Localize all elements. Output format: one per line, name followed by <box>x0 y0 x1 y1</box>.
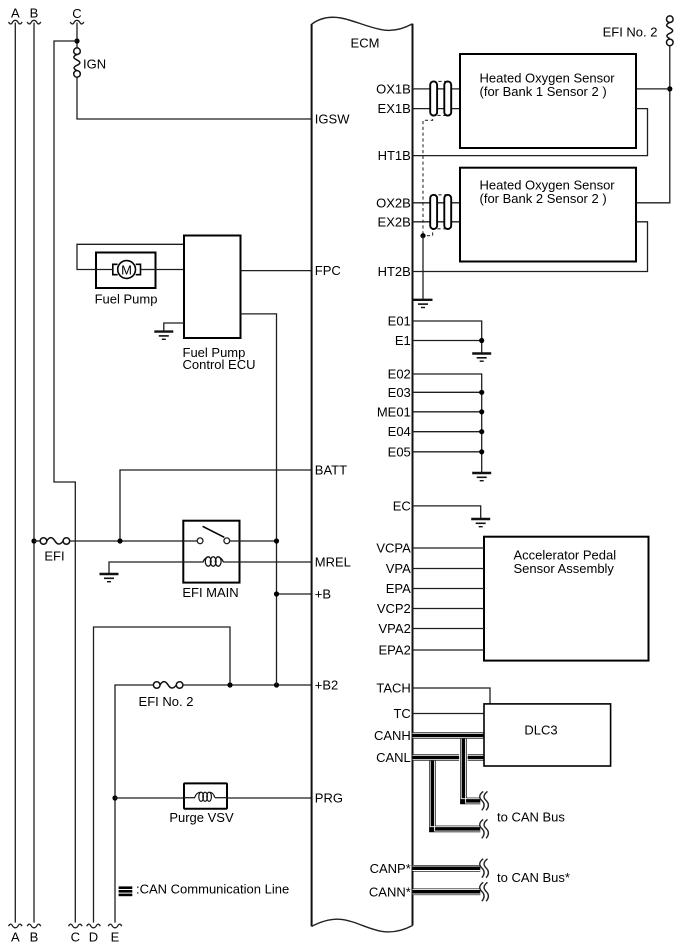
break symbol (CANP*) <box>480 859 489 878</box>
svg-text:VCP2: VCP2 <box>377 601 411 616</box>
legend CAN communication line <box>119 882 290 897</box>
svg-text:+B2: +B2 <box>315 678 339 693</box>
wire sensor1 +B <box>636 88 670 90</box>
CAN branch from CANH (to CAN Bus upper) <box>459 734 480 803</box>
wire HT2B loop <box>413 222 648 272</box>
svg-text:ECM: ECM <box>351 36 380 51</box>
node junction +B2/relay feed <box>274 682 279 687</box>
svg-text:EFI: EFI <box>44 549 64 564</box>
wire PRG to VSV <box>115 797 184 799</box>
node junction D/+B2 <box>227 682 232 687</box>
svg-text:MREL: MREL <box>315 555 351 570</box>
wire +B2 to ECM <box>183 684 312 686</box>
fuse EFI No. 2 <box>139 682 194 709</box>
svg-text:EPA2: EPA2 <box>379 643 411 658</box>
svg-text:E02: E02 <box>388 367 411 382</box>
node junction ME01 <box>479 409 484 414</box>
DLC3 <box>484 704 611 766</box>
svg-text:EX1B: EX1B <box>378 101 411 116</box>
wire E01 <box>413 321 482 353</box>
svg-text:HT1B: HT1B <box>378 148 411 163</box>
wire EC <box>413 506 481 518</box>
svg-text:E05: E05 <box>388 444 411 459</box>
svg-text:E01: E01 <box>388 314 411 329</box>
ground (EC) <box>471 519 490 527</box>
node junction +B <box>274 591 279 596</box>
svg-text:TC: TC <box>393 706 410 721</box>
connector capsule pair (bank2) <box>430 195 451 229</box>
svg-text:(for Bank 2 Sensor 2 ): (for Bank 2 Sensor 2 ) <box>480 191 607 206</box>
node C (top connector) <box>70 6 84 24</box>
svg-text:A: A <box>11 5 20 20</box>
break symbol (CANN*) <box>480 882 489 901</box>
wire CANP* band <box>413 866 481 870</box>
wire D branch to +B2 line <box>94 627 231 923</box>
wire EX1B <box>413 108 461 110</box>
wire C branch to lower harness <box>54 41 77 923</box>
fuse IGN <box>74 48 106 77</box>
wire relay coil ground lead <box>109 562 183 573</box>
fuel pump control ECU <box>183 236 256 373</box>
wire BATT <box>120 470 312 541</box>
node junction E03 <box>479 390 484 395</box>
wire OX2B <box>413 202 461 204</box>
wire CANH band <box>413 733 485 737</box>
wire EFI fuse to relay <box>70 540 184 542</box>
svg-text:BATT: BATT <box>315 463 347 478</box>
break symbol (CANH branch) <box>480 791 489 810</box>
svg-text:B: B <box>30 5 39 20</box>
svg-text:+B: +B <box>315 587 331 602</box>
accelerator pedal sensor assembly <box>484 537 649 661</box>
wire relay output <box>240 540 277 542</box>
svg-text:VPA: VPA <box>386 561 411 576</box>
node junction sensor1 +B <box>667 86 672 91</box>
svg-text:VPA2: VPA2 <box>379 621 411 636</box>
svg-text:E03: E03 <box>388 385 411 400</box>
wire EPA <box>413 588 485 590</box>
node B (top connector) <box>27 5 41 24</box>
svg-text:E: E <box>111 930 120 945</box>
wire E1 <box>413 340 482 342</box>
CAN branch from CANL (to CAN Bus lower) <box>430 758 480 832</box>
svg-text:A: A <box>11 930 20 945</box>
svg-text:EC: EC <box>393 498 411 513</box>
svg-text:C: C <box>71 930 80 945</box>
relay EFI MAIN <box>182 521 239 600</box>
node junction relay output <box>274 538 279 543</box>
wire motor inside <box>96 269 156 271</box>
wire VCPA <box>413 547 485 549</box>
break symbol (CANL branch) <box>480 819 489 838</box>
wire EX2B <box>413 221 461 223</box>
node D (bottom connector) <box>87 924 101 944</box>
svg-text:PRG: PRG <box>315 791 343 806</box>
svg-text:Fuel Pump: Fuel Pump <box>95 292 158 307</box>
svg-text:E04: E04 <box>388 424 411 439</box>
wire fuel pump feed loop <box>77 244 184 269</box>
svg-text:CANP*: CANP* <box>370 861 411 876</box>
svg-text:IGSW: IGSW <box>315 112 350 127</box>
wire HT1B loop <box>413 109 648 156</box>
svg-text:IGN: IGN <box>83 57 106 72</box>
svg-text:EFI No. 2: EFI No. 2 <box>603 25 658 40</box>
wire CANN* band <box>413 890 481 894</box>
node junction E1 <box>479 338 484 343</box>
svg-text::CAN Communication Line: :CAN Communication Line <box>136 882 289 897</box>
svg-text:M: M <box>121 262 132 277</box>
wire B vertical <box>33 23 35 923</box>
wire CANL band <box>413 755 485 759</box>
svg-text:D: D <box>89 930 98 945</box>
svg-text:OX1B: OX1B <box>376 81 411 96</box>
fuse EFI <box>34 538 70 564</box>
wire TC <box>413 713 485 715</box>
svg-text:DLC3: DLC3 <box>524 723 557 738</box>
wire shield drain <box>422 236 424 299</box>
wire TACH <box>413 688 491 704</box>
wire ECU power feed down to relay <box>241 314 277 685</box>
node E (bottom connector) <box>108 924 122 944</box>
node B (bottom connector) <box>27 924 41 944</box>
wire C top vertical <box>76 23 78 49</box>
node junction B/EFI fuse <box>31 538 36 543</box>
node junction E04 <box>479 429 484 434</box>
svg-text:E1: E1 <box>395 333 411 348</box>
wire OX1B <box>413 88 461 90</box>
svg-text:(for Bank 1 Sensor 2 ): (for Bank 1 Sensor 2 ) <box>480 84 607 99</box>
wire PRG to ECM <box>227 797 312 799</box>
svg-text:CANN*: CANN* <box>369 884 411 899</box>
ground (fuel pump control ECU) <box>154 332 173 340</box>
ground (EFI MAIN relay coil) <box>100 574 119 582</box>
svg-text:B: B <box>30 930 39 945</box>
svg-text:Sensor Assembly: Sensor Assembly <box>514 561 615 576</box>
wire FPC to ECM <box>241 270 312 272</box>
heated oxygen sensor bank1 <box>460 54 636 148</box>
connector capsule pair (bank1) <box>430 81 451 115</box>
svg-text:CANH: CANH <box>374 728 411 743</box>
svg-text:OX2B: OX2B <box>376 195 411 210</box>
svg-text:HT2B: HT2B <box>378 264 411 279</box>
svg-text:Purge VSV: Purge VSV <box>169 810 234 825</box>
wire VPA <box>413 568 485 570</box>
svg-text:to CAN Bus*: to CAN Bus* <box>497 870 570 885</box>
svg-text:EPA: EPA <box>386 581 411 596</box>
svg-text:C: C <box>72 6 81 21</box>
wire EPA2 <box>413 649 485 651</box>
wire EFI No.2 feed to sensors <box>636 46 670 203</box>
node junction PRG/E line <box>112 795 117 800</box>
svg-text:CANL: CANL <box>376 750 411 765</box>
wire VCP2 <box>413 608 485 610</box>
svg-text:EFI No. 2: EFI No. 2 <box>139 694 194 709</box>
fuse EFI No. 2 (top right) <box>603 16 674 46</box>
svg-text:ME01: ME01 <box>377 404 411 419</box>
node A (top connector) <box>9 5 23 24</box>
heated oxygen sensor bank2 <box>460 168 636 262</box>
svg-text:TACH: TACH <box>376 681 410 696</box>
wire E vertical to +B2 <box>115 685 154 923</box>
svg-text:to CAN Bus: to CAN Bus <box>497 810 565 825</box>
ECM body <box>312 17 413 932</box>
ground (E01/E1) <box>472 354 491 362</box>
wire VPA2 <box>413 628 485 630</box>
wire fuel pump to ECU <box>156 269 185 271</box>
node junction shield drain <box>420 233 425 238</box>
svg-text:EX2B: EX2B <box>378 214 411 229</box>
ground (O2 sensor shield) <box>414 300 433 308</box>
wire +B <box>277 593 312 595</box>
svg-text:VCPA: VCPA <box>376 541 411 556</box>
svg-text:FPC: FPC <box>315 263 341 278</box>
wire MREL to ECM <box>240 561 312 563</box>
fuel pump M1 <box>95 253 158 307</box>
node junction E05 <box>479 449 484 454</box>
shield dashed (bank1) <box>423 81 449 235</box>
wire IGSW from IGN fuse to ECM <box>77 77 312 119</box>
svg-text:EFI MAIN: EFI MAIN <box>182 585 238 600</box>
solenoid Purge VSV <box>169 783 234 825</box>
shield dashed (bank2) <box>423 195 449 236</box>
wire A vertical <box>14 23 16 923</box>
svg-text:Control ECU: Control ECU <box>183 357 256 372</box>
node C (bottom connector) <box>69 924 83 944</box>
node A (bottom connector) <box>9 924 23 944</box>
wire E02 group <box>413 374 482 472</box>
node junction at IGN <box>74 38 79 43</box>
wire ECU ground lead <box>164 323 184 331</box>
ground (E02-E05) <box>472 473 491 481</box>
node junction BATT branch <box>117 538 122 543</box>
